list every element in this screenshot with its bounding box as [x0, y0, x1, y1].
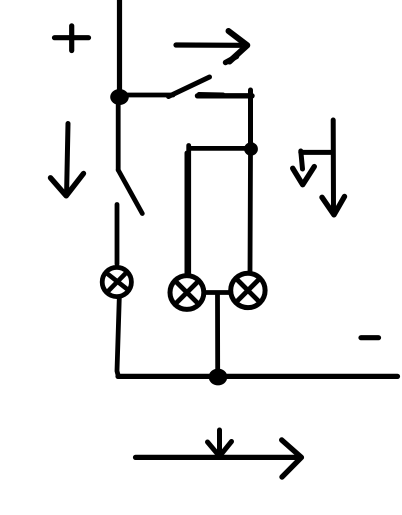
wire node B down to lamp L3 — [248, 152, 253, 272]
current direction arrow (left side, pointing down) — [51, 124, 84, 196]
switch S1 (open blade, two pen strokes) — [169, 57, 253, 97]
wire from lamp L2/L3 join down to node C — [215, 295, 220, 375]
wire node A to switch S1 pivot — [126, 93, 173, 98]
wire node A down to switch S2 — [116, 104, 121, 170]
switch S2 (open blade) — [118, 170, 142, 214]
node C (junction on return wire) — [209, 369, 228, 386]
node A (junction of supply, switch S1 and switch S2) — [110, 89, 129, 105]
wire switch S1 contact down to node B — [248, 90, 253, 146]
negative terminal - — [361, 335, 379, 340]
wire joining lamp L2 and lamp L3 — [205, 290, 231, 295]
node B (junction feeding lamps L2 and L3) — [244, 142, 258, 155]
wire node B left and down to lamp L2 — [187, 146, 248, 276]
wire lamp L1 down to return wire — [117, 298, 119, 376]
current direction arrow (top, pointing right) — [176, 31, 247, 62]
wire switch S2 contact down to lamp L1 — [115, 205, 120, 265]
positive terminal + — [55, 26, 89, 51]
wire from + supply down to node A — [117, 0, 122, 95]
lamp L1 — [102, 267, 131, 296]
current direction arrow (bottom, pointing right with entering down arrow) — [136, 430, 302, 477]
lamp L2 — [170, 276, 204, 310]
current direction arrow (right side, long down arrow with short left branch) — [293, 120, 345, 215]
lamp L3 — [231, 273, 265, 307]
return wire to negative terminal — [118, 374, 398, 379]
